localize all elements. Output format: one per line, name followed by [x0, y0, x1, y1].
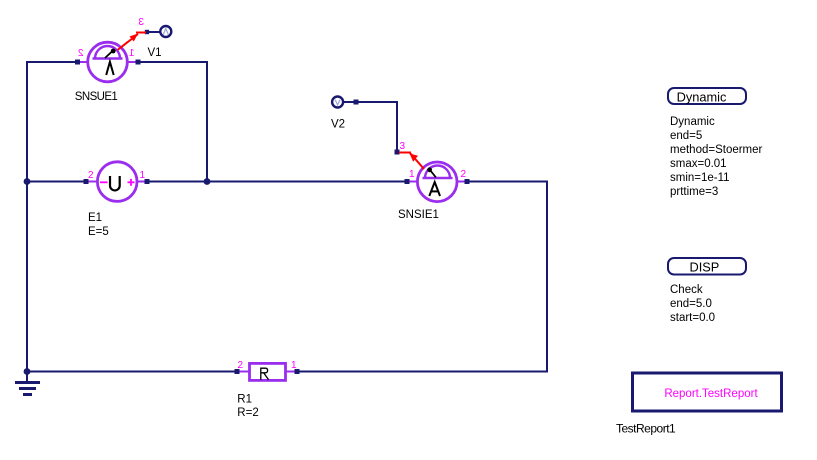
SNSUE1 pin 1 square	[136, 60, 141, 65]
wire: main rail left segment	[27, 181, 85, 183]
R1 pin 2 square	[235, 369, 240, 374]
DISP button	[668, 258, 746, 275]
svg-text:method=Stoermer: method=Stoermer	[670, 144, 763, 156]
SNSUE1 pin 2 square	[75, 60, 80, 65]
SNSIE1 pin 2 square	[465, 179, 470, 184]
SNSUE1 mirrored V glyph	[106, 62, 114, 75]
svg-text:DISP: DISP	[689, 260, 719, 275]
V2 pin square	[354, 100, 359, 105]
Dynamic button	[668, 88, 746, 105]
SNSUE1 needle	[105, 51, 113, 58]
DISP text block	[670, 284, 715, 324]
SNSUE1 body circle	[88, 42, 128, 82]
svg-text:SNSIE1: SNSIE1	[398, 209, 439, 221]
SNSIE1 letter A	[429, 182, 440, 196]
voltmeter SNSUE1	[75, 17, 149, 103]
E1 pin 1 square	[145, 179, 150, 184]
svg-text:V2: V2	[331, 119, 345, 131]
svg-text:end=5: end=5	[670, 130, 702, 142]
voltage source E1	[84, 162, 150, 238]
wire: bottom left segment to ground	[27, 371, 236, 373]
resistor R1	[235, 360, 300, 419]
svg-text:V1: V1	[148, 47, 162, 59]
svg-text:3: 3	[400, 141, 406, 152]
svg-text:R1: R1	[237, 394, 252, 406]
R1 body rect	[250, 363, 286, 380]
svg-text:start=0.0: start=0.0	[670, 312, 715, 324]
Dynamic experiment text block	[670, 116, 763, 198]
probe V2	[331, 97, 359, 131]
SNSIE1 needle	[430, 170, 436, 178]
wire: left loop (top-left corner, left vertical rail down to ground)	[27, 62, 75, 381]
svg-text:Dynamic: Dynamic	[677, 90, 727, 105]
svg-text:2: 2	[78, 48, 84, 59]
R1 pin 1 square	[295, 369, 300, 374]
R1 letter R	[261, 368, 269, 380]
SNSUE1 pin stub right	[127, 61, 139, 63]
svg-text:E=5: E=5	[88, 226, 109, 238]
E1 pin 2 square	[84, 179, 89, 184]
SNSIE1 needle tip blob	[427, 167, 432, 172]
wire: main rail middle segment	[148, 181, 406, 183]
probe V1	[148, 26, 172, 59]
SNSUE1 needle tip blob	[111, 49, 116, 54]
svg-text:smin=1e-11: smin=1e-11	[670, 172, 730, 184]
junction dot at left rail / main rail	[24, 178, 31, 185]
V1 inner glyph	[163, 28, 168, 34]
svg-text:Report.TestReport: Report.TestReport	[664, 388, 758, 400]
SNSUE1 meter base line	[93, 57, 123, 59]
svg-text:2: 2	[88, 170, 94, 181]
junction dot at loop right / main rail	[204, 178, 211, 185]
V1 circle	[160, 26, 171, 37]
svg-text:end=5.0: end=5.0	[670, 298, 712, 310]
E1 pin stub left	[86, 181, 98, 183]
SNSIE1 red arrowhead	[410, 154, 419, 162]
svg-text:SNSUE1: SNSUE1	[75, 91, 118, 103]
SNSIE1 pin stub left	[406, 181, 419, 183]
SNSIE1 meter base line	[423, 177, 453, 179]
wire: main rail right segment, right vertical, bottom right segment	[298, 182, 547, 372]
SNSUE1 red arrow horizontal	[136, 32, 146, 34]
SNSIE1 red arrow horizontal	[399, 152, 411, 154]
svg-text:Dynamic: Dynamic	[670, 116, 715, 128]
R1 pin stub right	[284, 371, 298, 373]
E1 pin stub right	[137, 181, 148, 183]
junction dot at ground	[24, 368, 31, 375]
svg-text:E1: E1	[88, 212, 102, 224]
SNSIE1 pin 3 square	[395, 150, 400, 155]
SNSUE1 pin 3 square	[145, 30, 149, 34]
svg-text:R=2: R=2	[237, 407, 258, 419]
SNSUE1 red arrow line	[118, 34, 139, 50]
SNSUE1 pin stub left	[77, 61, 88, 63]
wire: V2 probe to SNSIE1 pin3	[343, 102, 397, 150]
svg-text:Check: Check	[670, 284, 703, 296]
E1 minus sign	[100, 181, 108, 183]
wire: V1 probe to SNSUE1 pin3	[146, 31, 160, 33]
wire: top loop right segment from SNSUE1 pin1 down to main rail	[140, 62, 207, 182]
SNSIE1 body circle	[417, 162, 457, 202]
SNSIE1 red arrow line	[410, 153, 424, 169]
ammeter SNSIE1	[395, 141, 470, 221]
SNSIE1 meter arc	[425, 166, 450, 179]
SNSUE1 red arrowhead	[130, 34, 139, 42]
R1 pin stub left	[236, 371, 250, 373]
svg-text:smax=0.01: smax=0.01	[670, 158, 727, 170]
svg-text:TestReport1: TestReport1	[616, 422, 676, 436]
svg-text:2: 2	[461, 169, 467, 180]
Report.TestReport box	[633, 373, 782, 411]
E1 plus sign	[128, 179, 135, 186]
SNSUE1 meter arc	[95, 46, 120, 58]
ground	[15, 383, 40, 395]
E1 body circle	[97, 162, 137, 202]
SNSIE1 pin stub right	[456, 181, 468, 183]
svg-text:1: 1	[409, 169, 415, 180]
SNSIE1 pin 1 square	[405, 179, 410, 184]
svg-text:3: 3	[138, 17, 144, 28]
V2 inner glyph	[335, 100, 340, 105]
svg-text:1: 1	[129, 48, 135, 59]
E1 letter U	[110, 176, 120, 190]
svg-text:prttime=3: prttime=3	[670, 186, 718, 198]
V2 circle	[332, 97, 343, 108]
